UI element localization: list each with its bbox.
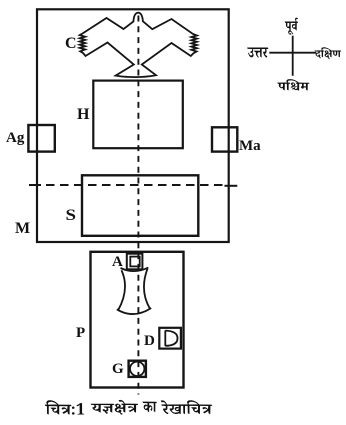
svg-text:C: C [65, 35, 77, 52]
horizontal dashed partition line [29, 184, 237, 187]
svg-text:S: S [66, 207, 77, 224]
compass label pashchim (West) [277, 79, 309, 91]
compass label dakshin (South) [315, 47, 342, 59]
D box symbol [159, 328, 181, 349]
central vertical dashed axis line [137, 16, 139, 395]
compass cross vertical line [292, 36, 294, 76]
outer enclosure rectangle M [37, 9, 229, 242]
compass cross horizontal line [269, 52, 316, 54]
svg-text:G: G [112, 361, 124, 377]
G box symbol [129, 361, 146, 377]
svg-text:Ma: Ma [239, 138, 261, 154]
P rectangle (lower enclosure) [91, 252, 184, 388]
svg-text:P: P [76, 325, 85, 341]
S rectangle [82, 175, 198, 236]
svg-text:M: M [15, 220, 30, 237]
compass label uttar (North) [247, 48, 268, 58]
compass label purv (East) [285, 18, 299, 35]
Ma square on right border [212, 127, 237, 151]
caption word rekhachitra [161, 400, 213, 414]
H rectangle (havan area) [93, 81, 183, 149]
Ag square on left border [28, 125, 54, 152]
svg-text:H: H [77, 106, 90, 123]
svg-text:D: D [144, 333, 155, 349]
caption word ka [143, 402, 157, 413]
hourglass-shaped vedi [117, 268, 151, 315]
A nested-square symbol [127, 254, 143, 270]
bird-shaped altar C (falcon outline) [80, 13, 197, 78]
caption: chitra 1 yagya kshetra ka rekhachitra [45, 400, 84, 414]
caption word yagya-kshetra [91, 400, 139, 415]
svg-text:Ag: Ag [6, 130, 25, 146]
